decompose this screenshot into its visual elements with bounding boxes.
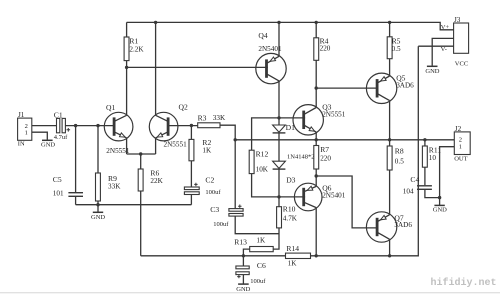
svg-text:4.7uf: 4.7uf: [54, 134, 68, 141]
svg-text:22K: 22K: [150, 177, 163, 185]
svg-text:2N5551: 2N5551: [322, 110, 346, 118]
svg-text:100uf: 100uf: [205, 189, 221, 196]
svg-text:J2: J2: [455, 125, 462, 133]
svg-text:1K: 1K: [202, 147, 212, 155]
svg-text:220: 220: [320, 44, 331, 52]
svg-text:33K: 33K: [213, 114, 226, 122]
svg-text:3AD6: 3AD6: [394, 221, 412, 229]
svg-text:104: 104: [403, 187, 414, 195]
svg-text:10: 10: [429, 154, 437, 162]
svg-text:10K: 10K: [256, 166, 269, 174]
svg-text:R3: R3: [198, 113, 207, 122]
svg-text:4.7K: 4.7K: [283, 214, 298, 222]
svg-text:C3: C3: [210, 205, 219, 214]
svg-text:GND: GND: [433, 206, 447, 213]
svg-text:1: 1: [459, 143, 462, 150]
svg-text:Q2: Q2: [179, 103, 188, 112]
svg-text:J3: J3: [454, 16, 461, 24]
svg-text:0.5: 0.5: [392, 45, 401, 53]
svg-text:3AD6: 3AD6: [396, 81, 414, 89]
svg-text:R12: R12: [256, 149, 269, 158]
svg-text:1K: 1K: [288, 259, 298, 267]
svg-text:R10: R10: [283, 204, 296, 213]
svg-text:0.5: 0.5: [395, 157, 404, 165]
svg-text:33K: 33K: [108, 183, 121, 191]
svg-text:C4: C4: [410, 175, 419, 184]
svg-text:VCC: VCC: [455, 60, 468, 67]
svg-text:220: 220: [320, 154, 331, 162]
svg-text:R6: R6: [150, 168, 159, 177]
svg-text:101: 101: [53, 189, 64, 197]
svg-text:100uf: 100uf: [250, 278, 266, 285]
svg-text:100uf: 100uf: [213, 221, 229, 228]
svg-text:D3: D3: [286, 175, 295, 184]
svg-text:Q1: Q1: [106, 103, 115, 112]
svg-text:V+: V+: [441, 24, 450, 31]
svg-text:GND: GND: [236, 286, 250, 293]
svg-text:2: 2: [459, 136, 462, 143]
svg-text:R9: R9: [108, 174, 117, 183]
svg-text:C1: C1: [54, 110, 63, 119]
svg-text:R7: R7: [320, 145, 329, 154]
svg-text:IN: IN: [18, 141, 25, 148]
svg-text:Q4: Q4: [258, 31, 267, 40]
svg-text:R8: R8: [395, 146, 404, 155]
svg-text:1N4148*2: 1N4148*2: [287, 153, 314, 160]
svg-text:2.2K: 2.2K: [129, 46, 144, 54]
svg-text:C5: C5: [53, 175, 62, 184]
svg-text:hifidiy.net: hifidiy.net: [431, 277, 497, 289]
svg-text:R13: R13: [234, 237, 247, 246]
svg-text:1K: 1K: [256, 236, 266, 244]
svg-text:GND: GND: [41, 141, 55, 148]
svg-text:R1: R1: [129, 36, 138, 45]
svg-text:GND: GND: [425, 68, 439, 75]
svg-text:J1: J1: [18, 111, 25, 119]
svg-text:2N5401: 2N5401: [322, 192, 346, 200]
svg-text:GND: GND: [91, 214, 105, 221]
svg-text:1: 1: [25, 130, 28, 137]
svg-text:V-: V-: [441, 46, 447, 53]
svg-text:C6: C6: [257, 261, 266, 270]
svg-text:OUT: OUT: [454, 155, 467, 162]
svg-text:2N5551: 2N5551: [164, 141, 188, 149]
svg-text:C2: C2: [205, 175, 214, 184]
svg-text:R14: R14: [286, 244, 299, 253]
